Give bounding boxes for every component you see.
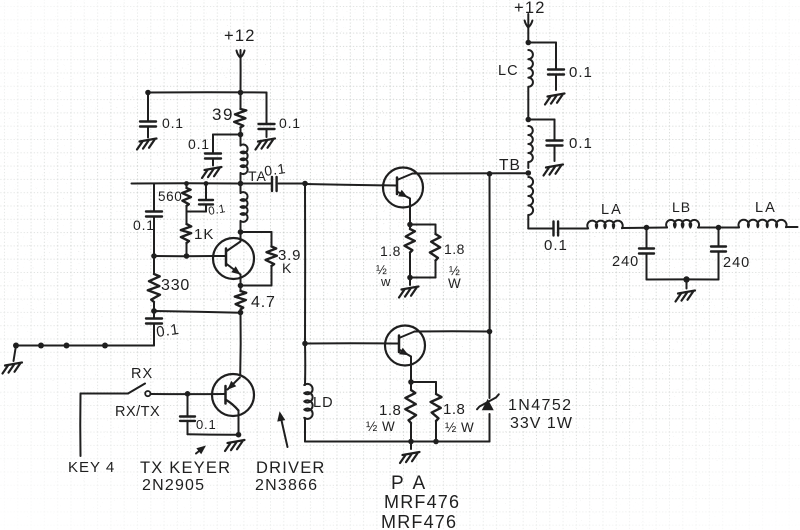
svg-text:240: 240 [723,255,750,271]
svg-text:LA: LA [601,202,623,218]
svg-text:1K: 1K [194,226,214,243]
svg-text:0.1: 0.1 [162,115,184,131]
svg-text:+12: +12 [514,0,546,17]
svg-text:4.7: 4.7 [251,294,276,311]
svg-text:KEY 4: KEY 4 [68,459,115,476]
svg-text:½ W: ½ W [366,419,395,434]
svg-text:0.1: 0.1 [188,136,210,152]
svg-text:1.8: 1.8 [379,402,401,419]
svg-text:+12: +12 [224,27,256,45]
svg-text:1.8: 1.8 [380,243,401,259]
svg-text:MRF476: MRF476 [381,512,457,530]
svg-text:TB: TB [499,157,521,174]
svg-text:2N3866: 2N3866 [255,477,318,494]
svg-text:LD: LD [313,395,334,411]
svg-text:33V 1W: 33V 1W [510,415,573,432]
svg-text:0.1: 0.1 [133,217,155,233]
svg-text:240: 240 [612,254,639,270]
svg-text:LA: LA [755,200,777,216]
svg-text:1N4752: 1N4752 [508,397,572,414]
svg-text:39: 39 [212,105,234,124]
svg-text:0.1: 0.1 [569,64,593,81]
svg-text:2N2905: 2N2905 [142,477,205,494]
svg-text:1.8: 1.8 [443,401,465,418]
svg-text:0.1: 0.1 [544,237,568,254]
svg-text:0.1: 0.1 [196,417,216,432]
svg-text:TX KEYER: TX KEYER [140,459,231,477]
svg-text:0.1: 0.1 [263,160,287,179]
svg-text:0.1: 0.1 [279,115,301,131]
svg-text:LC: LC [498,63,519,79]
svg-text:0.1: 0.1 [155,321,180,341]
svg-text:RX/TX: RX/TX [115,404,160,420]
svg-text:K: K [282,260,292,276]
svg-text:560: 560 [158,189,182,204]
svg-text:½ W: ½ W [445,420,474,435]
svg-text:330: 330 [161,277,190,294]
svg-text:1.8: 1.8 [444,241,465,257]
svg-text:P A: P A [391,473,428,494]
svg-text:RX: RX [131,366,153,382]
svg-text:W: W [448,276,461,291]
svg-text:DRIVER: DRIVER [256,459,326,477]
svg-text:MRF476: MRF476 [384,492,460,512]
svg-text:0.1: 0.1 [569,135,593,152]
svg-text:w: w [380,274,391,289]
svg-text:LB: LB [672,199,691,215]
